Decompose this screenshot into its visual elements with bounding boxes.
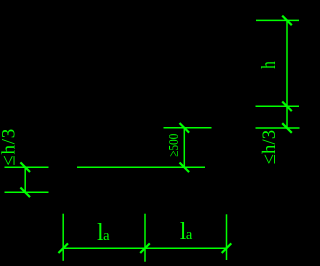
tick at bottom of right dimension <box>282 123 292 133</box>
wire middle extension line <box>164 127 212 129</box>
tick at top of 500 dimension <box>180 123 190 133</box>
wire right middle extension line <box>256 105 300 107</box>
svg-text:≤h/3: ≤h/3 <box>0 128 20 166</box>
wire main beam line <box>77 166 205 168</box>
wire bottom dimension line <box>63 247 226 249</box>
wire left vertical dimension line <box>24 167 26 192</box>
wire bottom extension line 3 <box>226 214 228 260</box>
wire right vertical dimension line h <box>286 20 288 128</box>
tick bottom dim right <box>222 243 232 253</box>
wire right lower extension line <box>256 127 300 129</box>
svg-text:≥500: ≥500 <box>166 134 181 157</box>
tick bottom dim left <box>58 243 68 253</box>
wire top-right extension line <box>256 19 299 21</box>
svg-text:h: h <box>257 61 280 69</box>
tick at bottom of 500 dimension <box>180 163 190 173</box>
tick bottom dim middle <box>140 243 150 253</box>
wire bottom extension line 2 <box>144 214 146 262</box>
tick at middle of right dimension <box>282 102 292 112</box>
wire middle vertical dimension line <box>183 128 185 168</box>
tick at top of left dimension <box>20 162 30 172</box>
wire left top line <box>5 166 49 168</box>
wire left bottom line <box>5 191 49 193</box>
wire bottom extension line 1 <box>62 214 64 261</box>
tick at bottom of left dimension <box>20 188 30 198</box>
svg-text:≤h/3: ≤h/3 <box>260 130 280 165</box>
tick at top of h dimension <box>282 16 292 26</box>
